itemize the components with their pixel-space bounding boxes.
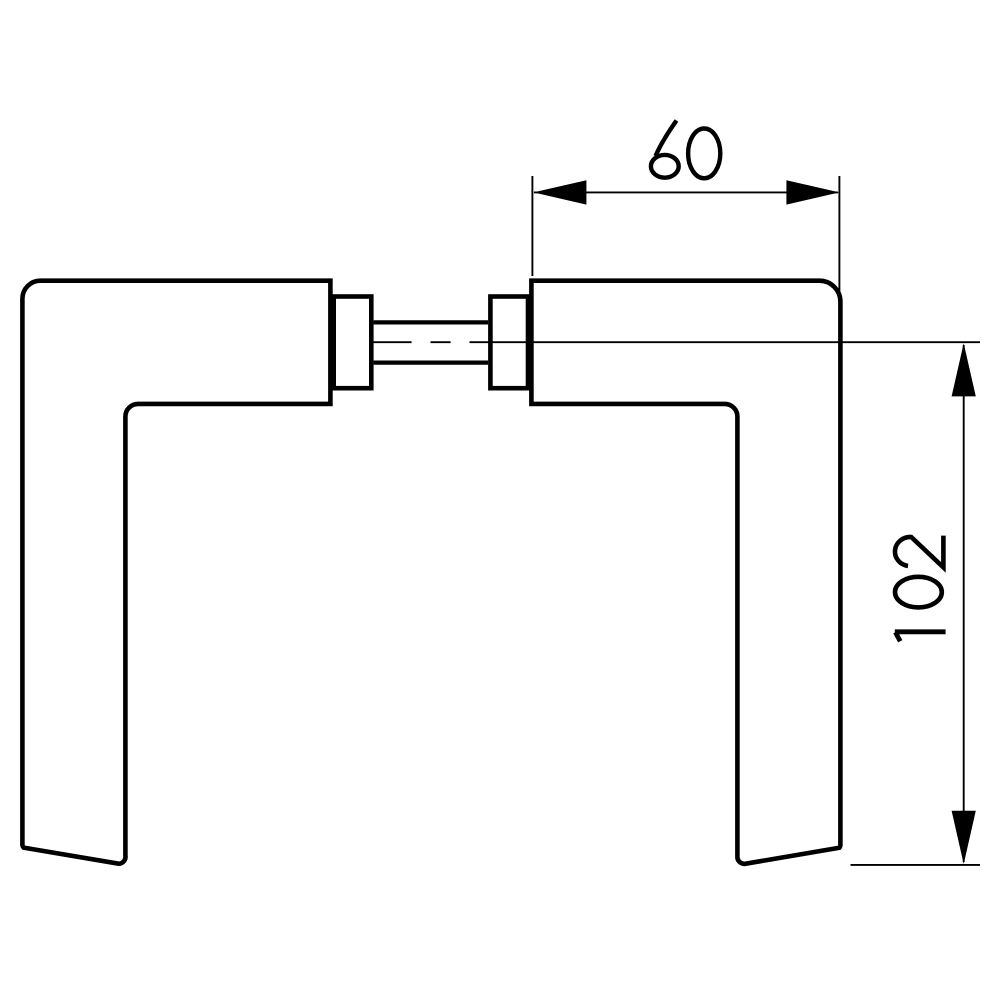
dim60 right arrowhead [786, 180, 839, 204]
left handle outline [22, 281, 330, 864]
right handle outline [531, 281, 840, 864]
spindle bottom edge [374, 361, 489, 365]
dim60 left arrowhead [533, 180, 586, 204]
dim60 left extension line [531, 176, 533, 276]
spindle top edge [374, 320, 489, 324]
dim102 dimension line [963, 345, 965, 862]
dim60 right extension line [838, 176, 840, 298]
left bearing plate [334, 297, 372, 389]
dim102 bottom extension line [851, 864, 981, 866]
dim102 text 102 rotated [895, 536, 946, 642]
dim102 top arrowhead [952, 343, 976, 396]
spindle centerline [373, 341, 980, 343]
dim60 dimension line [534, 191, 838, 193]
dim60 text digit 0 [688, 129, 720, 179]
dim60 text digit 6 [651, 121, 679, 178]
right bearing plate [490, 297, 528, 389]
dim102 bottom arrowhead [952, 811, 976, 864]
